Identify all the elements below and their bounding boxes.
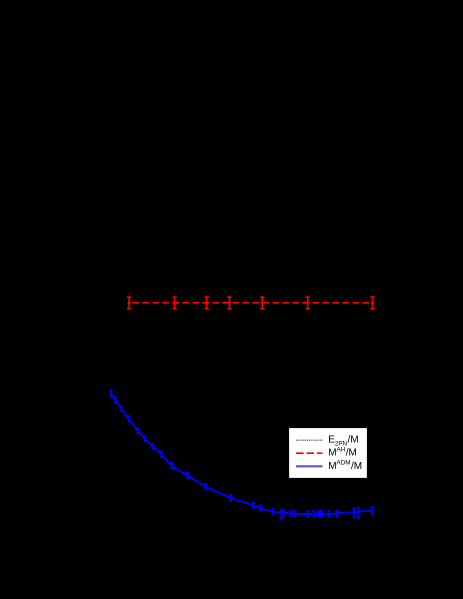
blue curve (111, 394, 372, 515)
red dashed line (129, 302, 372, 304)
legend sample E2PN dotted (296, 439, 323, 441)
red error bars (127, 297, 375, 309)
blue big marker (316, 510, 324, 518)
blue series M^ADM/M (110, 390, 374, 518)
red dashed series M^AH/M (127, 297, 375, 309)
blue error bars (110, 390, 374, 518)
legend sample MAH red dashed (296, 452, 323, 454)
legend box (289, 428, 368, 479)
legend sample MADM blue (296, 465, 323, 467)
